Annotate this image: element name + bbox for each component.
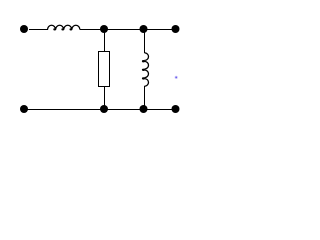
node D terminal dot (top-right output): [172, 25, 180, 33]
wire from resistor R1 down to node E: [104, 87, 106, 110]
wire from node C down to inductor L2: [144, 30, 146, 54]
wire top rail right segment: [80, 29, 176, 31]
gap notch after node A dot: [28, 29, 29, 30]
node B junction dot (top of R1): [100, 25, 108, 33]
inductor L1 (series, horizontal, 4 humps): [48, 25, 80, 29]
wire top rail left segment: [29, 29, 48, 31]
inductor L2 (shunt, vertical, 4 humps): [145, 53, 149, 86]
node F junction dot (bottom of L2): [140, 105, 148, 113]
inductor L1 loop knot 1: [53, 28, 56, 30]
resistor R1 (shunt, rectangle body): [99, 52, 110, 87]
wire from node B down to resistor R1: [104, 30, 106, 52]
node A terminal dot (top-left input): [20, 25, 28, 33]
inductor L2 loop knot 3: [142, 77, 145, 79]
node C junction dot (top of L2): [140, 25, 148, 33]
node E junction dot (bottom of R1): [100, 105, 108, 113]
node H terminal dot (bottom-right output return): [172, 105, 180, 113]
inductor L1 loop knot 3: [70, 28, 73, 30]
inductor L1 loop knot 2: [61, 28, 64, 30]
stray blue pixel artifact: [175, 76, 178, 79]
wire bottom rail: [24, 109, 176, 111]
node G terminal dot (bottom-left input return): [20, 105, 28, 113]
wire from inductor L2 down to node F: [144, 86, 146, 110]
inductor L2 loop knot 1: [142, 60, 145, 62]
inductor L2 loop knot 2: [142, 69, 145, 71]
